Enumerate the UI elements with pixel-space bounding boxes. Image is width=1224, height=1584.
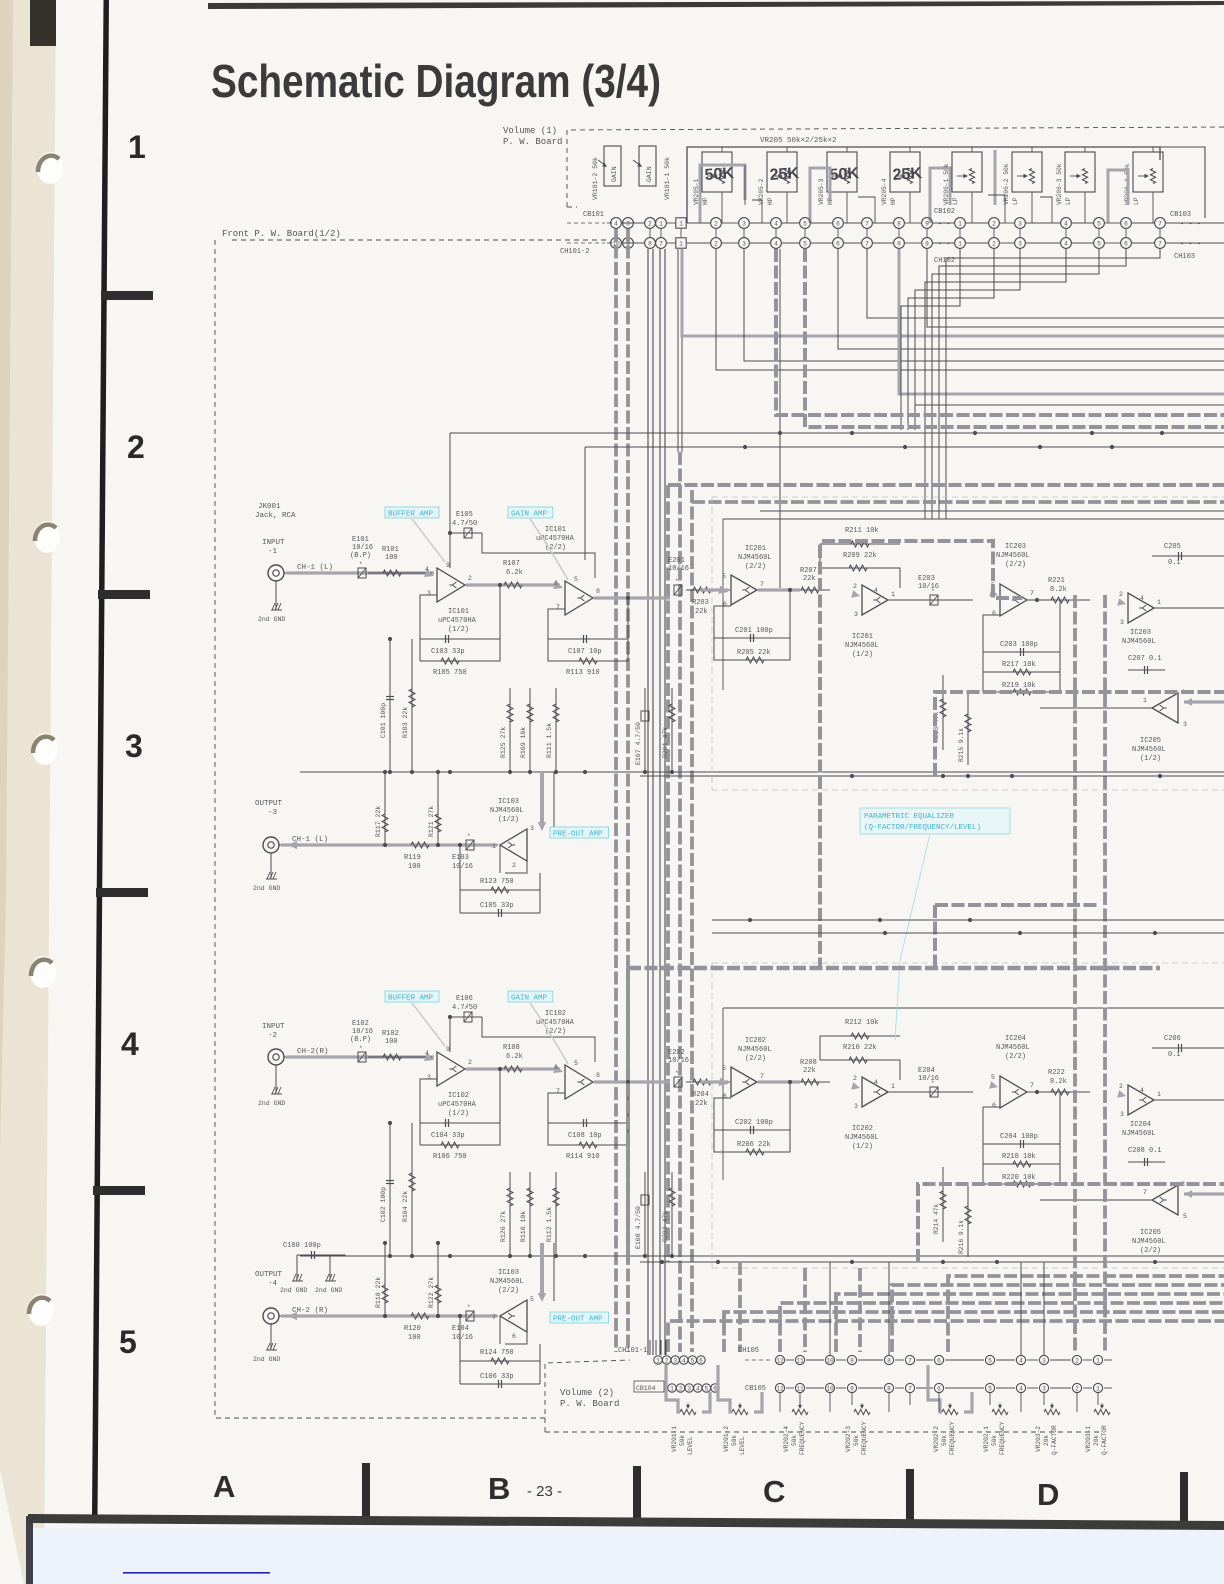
cyan tag GAIN AMP ch1 — [508, 507, 553, 518]
svg-text:0.1: 0.1 — [1168, 559, 1181, 567]
row tick 4-5 — [93, 1186, 145, 1195]
svg-text:uPC4570HA: uPC4570HA — [438, 1101, 477, 1109]
connector row1 rail — [607, 222, 612, 224]
cyan tag BUFFER AMP ch1 — [385, 507, 439, 518]
potentiometer VR201-2 50k LEVEL — [732, 1409, 748, 1414]
bus EQ1 to EQ2 link — [935, 903, 1100, 907]
wire CB103 nest 2 — [915, 249, 1020, 430]
wire — [744, 165, 746, 205]
svg-text:C105 33p: C105 33p — [480, 902, 514, 910]
svg-text:CH103: CH103 — [1174, 253, 1195, 261]
svg-text:50k: 50k — [941, 1435, 948, 1446]
ground output jack — [270, 853, 272, 878]
svg-text:C100 100p: C100 100p — [283, 1242, 321, 1250]
svg-text:R104 22k: R104 22k — [402, 1191, 409, 1222]
svg-text:10/16: 10/16 — [918, 1075, 939, 1083]
resistor R121 27k (vertical) — [437, 772, 439, 845]
svg-text:100: 100 — [385, 554, 398, 562]
svg-text:FREQUENCY: FREQUENCY — [861, 1421, 868, 1455]
svg-text:20k: 20k — [1093, 1435, 1100, 1446]
ground C100 right — [329, 1255, 331, 1280]
wire drops into CH101-1 — [649, 1340, 651, 1355]
svg-text:CB101: CB101 — [583, 211, 604, 219]
svg-text:3: 3 — [1120, 1111, 1124, 1118]
svg-text:NJM4560L: NJM4560L — [1132, 746, 1166, 754]
svg-text:GAIN AMP: GAIN AMP — [511, 511, 548, 519]
connector CH102 pins — [711, 238, 722, 249]
potentiometer VR203-2 20k Q-FACTOR — [1044, 1409, 1060, 1414]
svg-text:GAIN AMP: GAIN AMP — [511, 995, 548, 1003]
cyan tag PARAMETRIC EQUALIZER — [860, 808, 1010, 834]
svg-text:E105: E105 — [456, 511, 473, 519]
svg-text:VR205 50k×2/25k×2: VR205 50k×2/25k×2 — [760, 137, 837, 145]
row tick 2-3 — [98, 590, 150, 599]
cyan tag PRE-OUT AMP ch2 — [550, 1312, 609, 1323]
feedback C201 100p — [714, 590, 790, 638]
op-amp IC204 stage 4 — [1128, 1085, 1154, 1115]
column tick C|D — [906, 1469, 914, 1524]
svg-text:10/16: 10/16 — [352, 544, 373, 552]
svg-text:1: 1 — [679, 220, 683, 227]
potentiometer VR206-3 50k LP — [1065, 152, 1095, 192]
wire buffer top loop — [449, 533, 451, 568]
svg-text:R107: R107 — [503, 560, 520, 568]
svg-text:*: * — [359, 561, 363, 568]
capacitor E204 10/16 out — [888, 1091, 973, 1093]
svg-text:12: 12 — [776, 1357, 784, 1364]
svg-text:4: 4 — [1019, 1357, 1023, 1364]
resistor R110 10k (vertical) — [529, 1172, 531, 1255]
resistor R217 10k — [983, 652, 1060, 672]
svg-text:Schematic Diagram (3/4): Schematic Diagram (3/4) — [211, 55, 661, 107]
ground input jack — [275, 1065, 277, 1093]
svg-text:2: 2 — [648, 220, 652, 227]
bus pin1 column (thick dashed pair) — [678, 452, 682, 1352]
svg-text:IC102: IC102 — [545, 1010, 566, 1018]
resistor R112 1.5k (vertical) — [555, 1172, 557, 1255]
svg-text:2: 2 — [853, 1075, 857, 1082]
svg-text:6: 6 — [836, 240, 840, 247]
svg-text:12: 12 — [776, 1385, 784, 1392]
svg-text:R124 750: R124 750 — [480, 1349, 514, 1357]
svg-text:R209 22k: R209 22k — [843, 552, 877, 560]
wire CB101 pins 2-1 vertical pair — [647, 249, 649, 1355]
svg-text:C104 33p: C104 33p — [431, 1132, 465, 1140]
svg-text:6: 6 — [937, 1385, 941, 1392]
svg-text:HP: HP — [890, 197, 897, 205]
binder hole 4 — [30, 956, 56, 988]
svg-text:*: * — [931, 1080, 935, 1087]
wire input lead — [284, 572, 360, 574]
connector row2 rail — [607, 242, 612, 244]
wire input lead — [284, 1056, 360, 1058]
capacitor C106 33p — [460, 1383, 540, 1385]
svg-text:1: 1 — [1157, 599, 1161, 606]
wire pin1 column thin pair — [677, 249, 679, 452]
op-amp IC102 (1/2) buffer — [437, 1052, 465, 1086]
svg-text:10/16: 10/16 — [452, 863, 473, 871]
svg-text:R117 22k: R117 22k — [375, 806, 382, 837]
svg-text:22k: 22k — [695, 608, 708, 616]
svg-text:1: 1 — [891, 591, 895, 598]
svg-text:50k: 50k — [991, 1435, 998, 1446]
svg-text:R110 10k: R110 10k — [520, 1211, 527, 1242]
svg-text:2: 2 — [127, 429, 145, 465]
op-amp IC203 stage 4 — [1128, 593, 1154, 623]
svg-text:2nd GND: 2nd GND — [258, 1100, 285, 1107]
svg-text:10/16: 10/16 — [452, 1334, 473, 1342]
svg-text:VR202-4: VR202-4 — [783, 1426, 790, 1452]
potentiometer VR101-1 50k (GAIN) — [639, 146, 656, 186]
svg-text:5: 5 — [1097, 220, 1101, 227]
EQ row 2 dashed box — [712, 962, 1224, 964]
VR205 top bus wire — [687, 147, 1160, 223]
cyan tag GAIN AMP ch2 — [508, 991, 553, 1002]
svg-text:C: C — [763, 1474, 785, 1509]
svg-text:E201: E201 — [668, 557, 685, 565]
svg-text:1: 1 — [679, 240, 683, 247]
svg-text:IC203: IC203 — [1005, 543, 1026, 551]
pot wiring nest — [721, 147, 723, 152]
svg-text:5: 5 — [1183, 1213, 1187, 1220]
svg-text:22k: 22k — [803, 575, 816, 583]
svg-text:100: 100 — [385, 1038, 398, 1046]
svg-text:(2/2): (2/2) — [1140, 1247, 1161, 1255]
svg-text:R215 9.1k: R215 9.1k — [958, 728, 965, 762]
svg-text:100: 100 — [408, 863, 421, 871]
connector CB101 pin1 square — [676, 218, 686, 228]
svg-text:BUFFER AMP: BUFFER AMP — [388, 511, 434, 519]
svg-text:R123 750: R123 750 — [480, 878, 514, 886]
svg-text:IC204: IC204 — [1005, 1035, 1026, 1043]
svg-text:5: 5 — [530, 1296, 534, 1303]
svg-text:Jack, RCA: Jack, RCA — [255, 512, 296, 520]
EQ row 2 inner frame — [723, 1007, 1224, 1009]
signal arrow 2 — [553, 1065, 563, 1073]
wire stage1 out — [465, 584, 530, 586]
svg-text:5: 5 — [691, 1357, 695, 1364]
svg-text:5: 5 — [803, 220, 807, 227]
svg-text:4: 4 — [614, 220, 618, 227]
svg-text:R101: R101 — [382, 546, 399, 554]
svg-text:IC201: IC201 — [852, 633, 873, 641]
op-amp IC202 stage 2 — [862, 1077, 888, 1107]
resistor R126 27k (vertical) — [509, 1172, 511, 1255]
svg-text:C207 0.1: C207 0.1 — [1128, 655, 1162, 663]
potentiometer VR202-3 50k FREQUENCY — [854, 1409, 870, 1414]
signal arrow — [424, 1053, 434, 1061]
svg-text:5: 5 — [803, 240, 807, 247]
potentiometer VR202-1 50k FREQUENCY — [992, 1409, 1008, 1414]
svg-text:4: 4 — [696, 1385, 700, 1392]
svg-text:R220 10k: R220 10k — [1002, 1174, 1036, 1182]
svg-text:2: 2 — [714, 240, 718, 247]
bus return into pre-out — [540, 1243, 544, 1296]
svg-text:E101: E101 — [352, 536, 369, 544]
svg-text:NJM4560L: NJM4560L — [845, 642, 879, 650]
svg-text:1: 1 — [958, 240, 962, 247]
svg-text:Volume (2): Volume (2) — [560, 1388, 614, 1398]
svg-text:9: 9 — [446, 562, 450, 569]
svg-text:8: 8 — [596, 588, 600, 595]
EQ row 1 dashed box — [712, 496, 1224, 498]
wire stage2 out — [593, 1081, 668, 1083]
op-amp IC205 stage 5 — [1152, 1185, 1178, 1215]
capacitor C101 100p (vertical) — [389, 639, 391, 771]
svg-text:C101 100p: C101 100p — [380, 703, 387, 738]
svg-text:10: 10 — [826, 1385, 834, 1392]
svg-text:C204 100p: C204 100p — [1000, 1133, 1038, 1141]
svg-text:R119: R119 — [404, 854, 421, 862]
wire square-pin bus to right (thick) — [682, 249, 1224, 336]
svg-text:6: 6 — [992, 1102, 996, 1109]
svg-text:INPUT: INPUT — [262, 539, 285, 547]
signal arrow — [424, 569, 434, 577]
resistor R109 10k (vertical) — [529, 688, 531, 771]
cyan tag PRE-OUT AMP ch1 — [550, 827, 609, 838]
wire volume2 pot feeds — [779, 1393, 781, 1412]
svg-text:3: 3 — [530, 825, 534, 832]
svg-text:11: 11 — [796, 1357, 804, 1364]
bus nested corners bottom right — [948, 1276, 1224, 1352]
svg-text:VR202-2: VR202-2 — [933, 1426, 940, 1452]
svg-text:-1: -1 — [268, 548, 278, 556]
ground input jack — [275, 581, 277, 609]
op-amp IC103 pre-out — [500, 1300, 527, 1332]
svg-text:R106 750: R106 750 — [433, 1153, 467, 1161]
svg-text:2: 2 — [714, 220, 718, 227]
wire horizontals between EQ rows — [712, 919, 1224, 921]
feedback C108 10p — [548, 1082, 628, 1123]
wire pin9 route — [927, 249, 1224, 327]
bus loop VR201-2 — [718, 1365, 732, 1412]
svg-text:(1/2): (1/2) — [448, 626, 469, 634]
svg-text:(2/2): (2/2) — [1005, 561, 1026, 569]
svg-text:LEVEL: LEVEL — [739, 1436, 746, 1455]
svg-text:R207: R207 — [800, 567, 817, 575]
feedback resistor R205 22k — [714, 638, 790, 660]
svg-text:R201 47k: R201 47k — [662, 727, 669, 758]
resistor R123 750 — [460, 889, 540, 891]
svg-text:(2/2): (2/2) — [1005, 1053, 1026, 1061]
svg-text:5: 5 — [988, 1357, 992, 1364]
connector CB104 — [634, 1381, 664, 1392]
svg-text:VR205-3: VR205-3 — [818, 178, 825, 205]
binder hole 3 — [32, 733, 58, 765]
svg-text:R120: R120 — [404, 1325, 421, 1333]
svg-text:4: 4 — [1019, 1385, 1023, 1392]
svg-text:LP: LP — [952, 197, 959, 205]
svg-text:5: 5 — [991, 1074, 995, 1081]
svg-text:NJM4560L: NJM4560L — [996, 1044, 1030, 1052]
op-amp IC101 (1/2) buffer — [437, 568, 465, 602]
svg-text:CH105: CH105 — [738, 1347, 759, 1355]
svg-text:7: 7 — [865, 240, 869, 247]
potentiometer VR205-3 HP — [827, 152, 857, 192]
cyan tag BUFFER AMP ch2 — [385, 991, 439, 1002]
resistor R120 100 — [411, 1313, 429, 1319]
svg-text:4: 4 — [425, 566, 429, 573]
next page blue rule — [123, 1572, 270, 1574]
resistor R220 10k — [983, 1164, 1060, 1184]
svg-text:R126 27k: R126 27k — [500, 1211, 507, 1242]
svg-text:E202: E202 — [668, 1049, 685, 1057]
svg-text:C206: C206 — [1164, 1035, 1181, 1043]
svg-text:R111 1.5k: R111 1.5k — [546, 723, 553, 758]
svg-text:-2: -2 — [268, 1032, 277, 1040]
svg-text:BUFFER AMP: BUFFER AMP — [388, 995, 434, 1003]
svg-text:NJM4560L: NJM4560L — [738, 554, 772, 562]
bus second top rail — [692, 500, 1224, 504]
svg-text:R122 27k: R122 27k — [428, 1277, 435, 1308]
svg-text:50k: 50k — [791, 1435, 798, 1446]
capacitor C102 100p (vertical) — [389, 1123, 391, 1255]
svg-text:2: 2 — [1119, 591, 1123, 598]
wire vert E105 feed — [449, 433, 451, 533]
wire stage1 out — [465, 1068, 530, 1070]
svg-text:E108 4.7/50: E108 4.7/50 — [635, 1206, 642, 1249]
gray arrow into B — [851, 590, 860, 598]
ground output jack — [270, 1324, 272, 1349]
svg-text:- - -: - - - — [1180, 221, 1201, 229]
mid rail wire — [300, 1255, 1224, 1257]
svg-text:IC102: IC102 — [448, 1092, 469, 1100]
svg-text:10/16: 10/16 — [918, 583, 939, 591]
svg-text:10/16: 10/16 — [668, 565, 689, 573]
svg-text:2nd GND: 2nd GND — [280, 1287, 307, 1294]
svg-text:5: 5 — [119, 1324, 137, 1360]
svg-text:- -: - - — [938, 241, 951, 249]
svg-text:3: 3 — [1120, 619, 1124, 626]
wire pre-out feedback — [505, 861, 527, 873]
page bottom edge bar — [28, 1514, 1224, 1530]
wire thin rail y511 — [760, 510, 1224, 512]
svg-text:3: 3 — [742, 220, 746, 227]
svg-text:NJM4560L: NJM4560L — [996, 552, 1030, 560]
svg-text:1: 1 — [659, 220, 663, 227]
svg-text:7: 7 — [760, 581, 764, 588]
connector CB103 pins — [955, 218, 966, 229]
capacitor E108 4.7/50 (vertical) — [644, 1172, 646, 1255]
svg-text:R204: R204 — [692, 1091, 709, 1099]
wire A out — [757, 1081, 830, 1083]
svg-text:3: 3 — [1183, 721, 1187, 728]
svg-text:2nd GND: 2nd GND — [253, 885, 280, 892]
wire nest horizontals lower — [915, 404, 1224, 406]
svg-text:NJM4560L: NJM4560L — [845, 1134, 879, 1142]
svg-text:IC201: IC201 — [745, 545, 766, 553]
svg-text:2: 2 — [512, 862, 516, 869]
svg-text:2: 2 — [1119, 1083, 1123, 1090]
svg-text:R218 10k: R218 10k — [1002, 1153, 1036, 1161]
resistor R215 (vertical) — [967, 690, 969, 765]
svg-text:IC205: IC205 — [1140, 737, 1161, 745]
svg-text:E102: E102 — [352, 1020, 369, 1028]
svg-text:6: 6 — [937, 1357, 941, 1364]
svg-text:5: 5 — [574, 1060, 578, 1067]
wire C100 to rail — [330, 1255, 390, 1256]
bus return into pre-out — [540, 772, 544, 825]
svg-text:8: 8 — [596, 1072, 600, 1079]
row tick 1-2 — [101, 291, 153, 300]
svg-text:7: 7 — [659, 240, 663, 247]
page top edge line — [208, 1, 1224, 9]
svg-text:4: 4 — [1064, 220, 1068, 227]
svg-text:VR205-4: VR205-4 — [881, 178, 888, 205]
svg-text:CH101-1: CH101-1 — [618, 1347, 647, 1355]
svg-text:2: 2 — [992, 240, 996, 247]
svg-text:*: * — [467, 833, 471, 840]
svg-text:2: 2 — [1075, 1385, 1079, 1392]
svg-text:E204: E204 — [918, 1067, 935, 1075]
svg-text:R203: R203 — [692, 599, 709, 607]
wire CB103 nest right — [946, 249, 1160, 519]
Volume(2) dashed outline — [545, 1360, 630, 1432]
svg-text:50K: 50K — [704, 165, 735, 184]
svg-text:4: 4 — [1064, 240, 1068, 247]
resistor R124 750 — [460, 1360, 540, 1362]
connector CB102 pins — [711, 218, 722, 229]
svg-text:25K: 25K — [892, 165, 923, 184]
svg-text:7: 7 — [1158, 240, 1162, 247]
column tick A|B — [362, 1463, 370, 1518]
svg-text:PRE-OUT AMP: PRE-OUT AMP — [553, 1316, 603, 1324]
svg-text:LEVEL: LEVEL — [687, 1436, 694, 1455]
svg-text:R113 910: R113 910 — [566, 669, 600, 677]
cyan leader line — [895, 834, 930, 1040]
svg-text:50K: 50K — [829, 165, 860, 184]
svg-text:22k: 22k — [803, 1067, 816, 1075]
svg-text:IC202: IC202 — [745, 1037, 766, 1045]
svg-text:GAIN: GAIN — [646, 166, 653, 182]
svg-text:7: 7 — [908, 1357, 912, 1364]
wire pin column stubs between rows — [615, 229, 617, 237]
svg-text:IC203: IC203 — [1130, 629, 1151, 637]
svg-text:R217 10k: R217 10k — [1002, 661, 1036, 669]
EQ row 2 bottom rail — [640, 1261, 1224, 1263]
svg-text:6: 6 — [699, 1357, 703, 1364]
wire A out — [757, 589, 830, 591]
svg-text:3: 3 — [626, 220, 630, 227]
svg-text:9: 9 — [850, 1357, 854, 1364]
svg-text:C208 0.1: C208 0.1 — [1128, 1147, 1162, 1155]
svg-text:5: 5 — [722, 1065, 726, 1072]
svg-text:7: 7 — [1030, 590, 1034, 597]
svg-text:IC205: IC205 — [1140, 1229, 1161, 1237]
potentiometer VR206-1 50k LP — [952, 152, 982, 192]
svg-text:(Q-FACTOR/FREQUENCY/LEVEL): (Q-FACTOR/FREQUENCY/LEVEL) — [864, 824, 981, 832]
svg-text:3: 3 — [854, 611, 858, 618]
svg-text:VR205-2: VR205-2 — [758, 178, 765, 205]
svg-text:1: 1 — [1096, 1357, 1100, 1364]
feedback resistor R113 910 — [548, 639, 628, 661]
svg-text:4: 4 — [774, 240, 778, 247]
gray arrow into B — [851, 1082, 860, 1090]
svg-text:8.2k: 8.2k — [1050, 586, 1067, 594]
feedback C203 100p — [983, 600, 1060, 652]
svg-text:R206 22k: R206 22k — [737, 1141, 771, 1149]
svg-text:C203 100p: C203 100p — [1000, 641, 1038, 649]
svg-text:FREQUENCY: FREQUENCY — [799, 1421, 806, 1455]
svg-text:7: 7 — [908, 1385, 912, 1392]
svg-text:-3: -3 — [268, 809, 278, 817]
svg-text:Volume (1): Volume (1) — [503, 126, 557, 136]
svg-text:IC204: IC204 — [1130, 1121, 1151, 1129]
svg-text:JK001: JK001 — [258, 503, 281, 511]
svg-text:*: * — [465, 1005, 469, 1012]
svg-text:7: 7 — [865, 220, 869, 227]
svg-text:CB104: CB104 — [636, 1385, 656, 1392]
